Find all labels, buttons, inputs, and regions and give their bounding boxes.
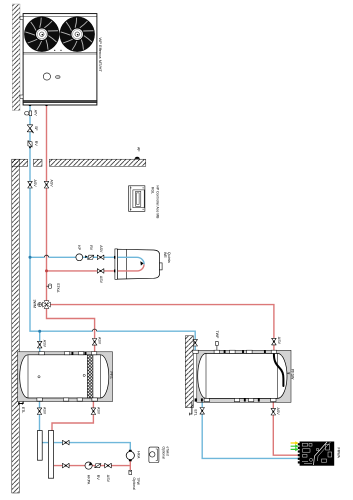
svg-text:ASV: ASV bbox=[33, 180, 37, 188]
controller RGL HP Controller Ace MB bbox=[129, 186, 160, 220]
svg-text:RV: RV bbox=[89, 245, 93, 251]
drain ETL left tank bbox=[18, 402, 24, 414]
node blue junction at left tank branch bbox=[38, 330, 41, 333]
storage tank PFSW panel bbox=[197, 350, 291, 402]
wire red right tank bottom to FRWA bbox=[273, 399, 299, 456]
heat pump service circle bbox=[43, 73, 50, 80]
wire red heating circuit flow bbox=[53, 459, 130, 466]
heating circuit HKA bbox=[126, 450, 140, 462]
svg-text:eTwist: eTwist bbox=[166, 447, 170, 456]
wire blue HP supply vertical bbox=[29, 104, 31, 330]
valve heating flow bbox=[63, 463, 70, 468]
heat pump fan 1 bbox=[24, 17, 59, 52]
valve ASV left tank top red bbox=[92, 337, 101, 345]
svg-text:RV: RV bbox=[34, 141, 38, 147]
sensor TWF bbox=[215, 331, 219, 351]
heat pump wall bracket top bbox=[20, 16, 23, 19]
wire blue main horizontal to right tank bbox=[29, 331, 195, 353]
wire blue left tank bottom to manifold bbox=[39, 401, 41, 431]
PFS top nozzles bbox=[39, 352, 97, 355]
drain ETL right tank bbox=[190, 402, 198, 416]
pipe bridge blue over red at boiler line bbox=[44, 255, 48, 257]
sensor STKA bbox=[47, 283, 61, 293]
manifold return bar bbox=[37, 431, 42, 461]
svg-text:SF: SF bbox=[34, 126, 38, 131]
valve ASV right tank bottom red bbox=[271, 408, 280, 416]
valve ASV blue riser bbox=[28, 180, 37, 189]
heat pump marks between fans bbox=[54, 50, 62, 51]
wire red left tank bottom to manifold bbox=[52, 401, 93, 431]
svg-text:ASV: ASV bbox=[99, 245, 103, 253]
svg-text:ASV: ASV bbox=[99, 276, 103, 284]
valve ASV left tank bottom blue bbox=[37, 407, 46, 415]
sensor Optional TPW bbox=[129, 466, 140, 490]
svg-text:AF: AF bbox=[137, 147, 141, 152]
wire red to boiler bbox=[47, 270, 116, 272]
svg-text:WP Effenca MT/HT: WP Effenca MT/HT bbox=[98, 38, 103, 73]
valve ASV right tank top red bbox=[272, 337, 281, 345]
floor slab long bar bbox=[49, 159, 145, 166]
svg-text:PFS: PFS bbox=[109, 372, 113, 380]
wire blue branch to left tank top bbox=[39, 331, 41, 352]
flow arrow after pump bbox=[85, 255, 88, 258]
room unit Optional eTwist bbox=[149, 447, 170, 463]
svg-text:ASV: ASV bbox=[42, 407, 46, 415]
node HP red connection bbox=[45, 103, 48, 106]
heat pump logo plate bbox=[56, 76, 61, 79]
wire blue to boiler KP line bbox=[30, 256, 115, 258]
fresh water station FRWA bbox=[298, 442, 341, 466]
svg-text:RGL: RGL bbox=[151, 187, 155, 194]
svg-text:ETL: ETL bbox=[194, 410, 198, 416]
svg-text:PFSW: PFSW bbox=[291, 369, 295, 380]
svg-text:ASV: ASV bbox=[98, 337, 102, 345]
svg-text:ASV: ASV bbox=[277, 337, 281, 345]
svg-text:Optional: Optional bbox=[132, 478, 136, 491]
svg-text:WE: WE bbox=[163, 252, 167, 258]
node blue junction at KP branch bbox=[29, 256, 32, 259]
arrow circulation green 2 bbox=[291, 448, 299, 452]
check valve RV heating bbox=[95, 464, 101, 481]
svg-text:STKA: STKA bbox=[56, 283, 60, 293]
valve ASV left tank bottom red bbox=[91, 407, 100, 415]
svg-text:TPW: TPW bbox=[136, 478, 140, 486]
check valve RV on blue bbox=[28, 141, 38, 149]
svg-text:HP Controller Ace MB: HP Controller Ace MB bbox=[156, 186, 160, 220]
svg-text:ASV: ASV bbox=[96, 407, 100, 415]
valve ASV boiler red bbox=[97, 269, 104, 284]
floor slab left piece bbox=[12, 159, 28, 166]
red pipes bbox=[47, 104, 300, 465]
svg-text:TWF: TWF bbox=[215, 331, 219, 340]
wall at right storage tank bbox=[185, 336, 193, 408]
arrow hot water yellow bbox=[291, 441, 299, 445]
svg-text:ASV: ASV bbox=[106, 475, 110, 483]
svg-text:ASV: ASV bbox=[43, 340, 47, 348]
wire blue heating circuit return bbox=[42, 443, 130, 452]
wall outdoor top-left bbox=[12, 4, 20, 111]
svg-text:AfV: AfV bbox=[34, 110, 38, 116]
buffer tank PFS body bbox=[20, 355, 113, 398]
outdoor sensor AF bbox=[135, 147, 141, 159]
heat pump fan 2 bbox=[60, 17, 95, 52]
wire red main to right tank top bbox=[50, 305, 274, 353]
arrow cold water green 1 bbox=[291, 444, 299, 448]
strainer SF bbox=[27, 125, 38, 133]
svg-text:ASV: ASV bbox=[49, 180, 53, 188]
air vent AfV bbox=[25, 110, 38, 116]
valve ASV heating bbox=[105, 463, 112, 482]
wire red HP return vertical bbox=[46, 104, 48, 301]
svg-text:Quinta: Quinta bbox=[167, 252, 171, 263]
wire blue right tank bottom to FRWA bbox=[202, 399, 299, 459]
valve ASV left tank top blue bbox=[37, 340, 46, 348]
valve ASV red riser bbox=[44, 180, 53, 189]
node HP blue connection bbox=[29, 103, 32, 106]
svg-text:ASV: ASV bbox=[276, 408, 280, 416]
floor slab middle piece bbox=[34, 159, 43, 166]
svg-text:ETL: ETL bbox=[21, 407, 25, 413]
wall indoor left vertical bbox=[12, 159, 19, 493]
heat pump WP outer case bbox=[23, 14, 97, 105]
manifold flow bar bbox=[48, 431, 53, 479]
heat pump wall bracket bottom bbox=[20, 95, 23, 98]
pipe bridge blue over red at main line bbox=[93, 329, 97, 331]
PFS bottom nozzles bbox=[37, 398, 97, 401]
svg-text:KP: KP bbox=[77, 245, 81, 250]
valve heating return bbox=[63, 440, 70, 445]
buffer tank PFS panel bbox=[18, 352, 113, 402]
storage tank PFSW body bbox=[198, 353, 295, 398]
pump KP bbox=[76, 245, 83, 260]
valve ASV right tank bottom blue bbox=[200, 408, 205, 415]
pump HKPA bbox=[85, 462, 92, 485]
mixing valve 3WM bbox=[33, 300, 51, 309]
svg-text:Optional: Optional bbox=[162, 447, 166, 460]
svg-text:RV: RV bbox=[96, 475, 100, 481]
svg-text:HKA: HKA bbox=[136, 451, 140, 459]
svg-text:HKPA: HKPA bbox=[87, 475, 91, 485]
boiler WE Quinta bbox=[114, 249, 171, 279]
wire red below mixer to left tank top bbox=[47, 308, 95, 353]
check valve RV boiler line bbox=[88, 245, 94, 259]
valve ASV right tank top blue bbox=[193, 339, 198, 346]
valve ASV boiler blue bbox=[97, 245, 104, 259]
blue pipes bbox=[29, 104, 299, 458]
node red junction at boiler branch bbox=[45, 269, 48, 272]
PFSW bottom nozzles bbox=[195, 398, 276, 401]
svg-text:FRWA: FRWA bbox=[337, 448, 341, 459]
PFSW top nozzles bbox=[193, 350, 277, 353]
svg-text:3WM: 3WM bbox=[33, 300, 37, 308]
